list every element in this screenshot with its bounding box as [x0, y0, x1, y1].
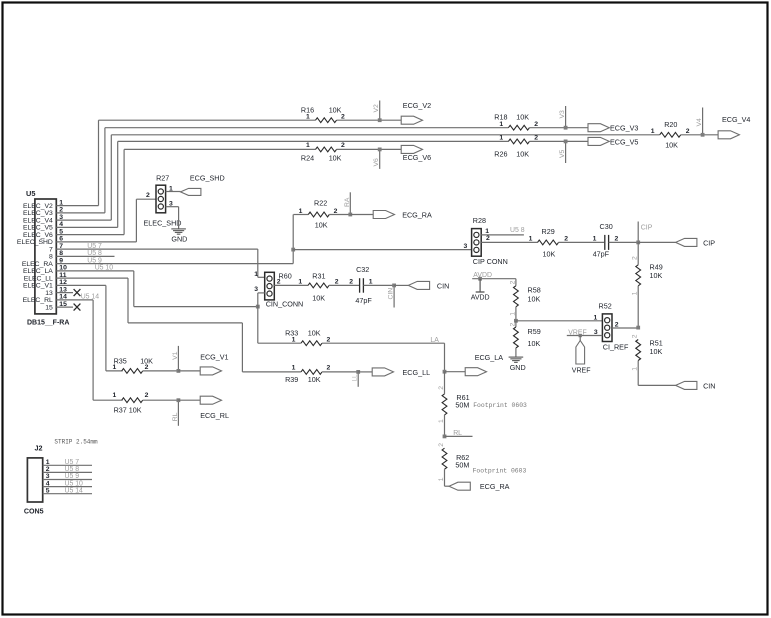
svg-text:R37 10K: R37 10K [114, 405, 142, 414]
capacitor C32 47pF [349, 265, 394, 305]
wire U5 pin 10 to CIN_CONN pin 3 riser [73, 271, 258, 307]
svg-text:5: 5 [59, 228, 63, 235]
svg-text:ELEC_SHD: ELEC_SHD [17, 239, 53, 246]
svg-text:10K: 10K [528, 339, 541, 348]
svg-text:2: 2 [615, 235, 619, 242]
net label V3 [559, 110, 566, 119]
net label VREF grey [568, 330, 586, 338]
svg-text:2: 2 [438, 443, 445, 447]
svg-text:1: 1 [438, 419, 445, 423]
capacitor C30 47pF [593, 222, 639, 258]
svg-text:3: 3 [46, 473, 50, 480]
svg-text:R59: R59 [528, 327, 541, 336]
svg-text:CIP: CIP [641, 224, 653, 231]
input flag CIN [676, 381, 716, 390]
svg-text:ECG_RA: ECG_RA [480, 482, 510, 491]
svg-text:CIN: CIN [388, 288, 395, 300]
svg-text:1: 1 [485, 228, 489, 235]
svg-text:V6: V6 [373, 158, 380, 167]
resistor R49 10K [632, 242, 663, 327]
svg-text:ELEC_V2: ELEC_V2 [23, 203, 53, 210]
svg-text:1: 1 [509, 312, 516, 316]
svg-text:CON5: CON5 [24, 507, 44, 515]
svg-text:V3: V3 [559, 110, 566, 119]
svg-text:ELEC_LL: ELEC_LL [24, 275, 53, 282]
svg-text:2: 2 [341, 114, 345, 121]
svg-text:15: 15 [45, 304, 53, 311]
svg-text:1: 1 [529, 235, 533, 242]
svg-text:AVDD: AVDD [473, 272, 492, 279]
svg-text:9: 9 [59, 257, 63, 264]
svg-text:3: 3 [594, 329, 598, 336]
flag ECG_SHD [181, 174, 225, 196]
svg-text:1: 1 [593, 235, 597, 242]
svg-text:U5 8: U5 8 [65, 466, 80, 473]
svg-text:ELEC_RL: ELEC_RL [23, 297, 53, 304]
output flag ECG_V5 [588, 137, 638, 146]
svg-text:2: 2 [632, 334, 639, 338]
wire U5 pin 6 ELEC_SHD to R27 pin 2 [73, 199, 156, 242]
svg-text:ELEC_V1: ELEC_V1 [23, 283, 53, 290]
resistor R58 10K [509, 279, 540, 321]
wire R27 pin 3 to ground [166, 200, 179, 228]
svg-text:2: 2 [341, 142, 345, 149]
svg-text:13: 13 [59, 286, 67, 293]
wire R27 pin 1 to ECG_SHD flag [166, 185, 181, 192]
svg-text:1: 1 [369, 278, 373, 285]
svg-text:3: 3 [254, 286, 258, 293]
header R27 [156, 174, 169, 213]
svg-text:1: 1 [292, 364, 296, 371]
svg-text:CIN: CIN [703, 381, 715, 390]
net label RL grey mid [453, 430, 462, 437]
net label U5 10 [95, 265, 114, 272]
svg-text:10K: 10K [315, 221, 328, 230]
label footprint R61 [473, 402, 527, 409]
svg-text:C30: C30 [600, 222, 613, 231]
svg-text:3: 3 [169, 200, 173, 207]
svg-text:ELEC_V6: ELEC_V6 [23, 232, 53, 239]
svg-text:50M: 50M [455, 461, 469, 470]
wire R60 pin 3 [254, 286, 264, 343]
svg-text:10K: 10K [516, 149, 529, 158]
net label AVDD grey [473, 272, 492, 279]
node RL junction [443, 435, 473, 439]
no-connect X pin 15 [74, 304, 81, 311]
power flag VREF [572, 336, 591, 375]
resistor R39 10K [285, 364, 358, 384]
svg-text:2: 2 [145, 392, 149, 399]
resistor R22 10K [293, 199, 350, 230]
svg-text:LL: LL [352, 374, 359, 382]
net label RA [344, 197, 351, 207]
svg-text:2: 2 [534, 135, 538, 142]
svg-text:U5 10: U5 10 [95, 265, 114, 272]
svg-text:ECG_V5: ECG_V5 [610, 137, 638, 146]
svg-text:ECG_RL: ECG_RL [200, 411, 229, 420]
wire U5 pin 3 to rail ECG_V4 [73, 135, 718, 220]
input flag CIN mid [408, 281, 449, 290]
svg-text:8: 8 [59, 250, 63, 257]
header R60 CIN_CONN [265, 271, 304, 308]
svg-text:2: 2 [334, 208, 338, 215]
svg-text:10K: 10K [650, 347, 663, 356]
connector J2 CON5 [24, 443, 92, 515]
wire U5 pin 8 stub [73, 255, 115, 257]
node V5 [564, 140, 568, 164]
svg-text:ELEC_SHD: ELEC_SHD [144, 218, 182, 227]
output flag ECG_RA [373, 210, 432, 219]
svg-text:10K: 10K [312, 293, 325, 302]
svg-text:1: 1 [438, 477, 445, 481]
node CIP stub [636, 222, 675, 245]
svg-text:8: 8 [49, 254, 53, 261]
svg-text:R39: R39 [285, 375, 298, 384]
svg-text:RA: RA [344, 197, 351, 207]
svg-text:V1: V1 [172, 351, 179, 360]
svg-text:2: 2 [335, 278, 339, 285]
svg-text:STRIP 2.54mm: STRIP 2.54mm [54, 439, 98, 446]
svg-text:2: 2 [509, 280, 516, 284]
svg-text:1: 1 [169, 185, 173, 192]
svg-text:4: 4 [59, 221, 63, 228]
svg-text:10: 10 [59, 265, 67, 272]
output flag ECG_RL [200, 396, 229, 420]
svg-text:U5 9: U5 9 [87, 257, 102, 264]
svg-text:1: 1 [59, 199, 63, 206]
wire R52 pin 3 to VREF [567, 329, 603, 336]
svg-text:R20: R20 [664, 120, 677, 129]
svg-text:6: 6 [59, 236, 63, 243]
svg-text:3: 3 [464, 243, 468, 250]
svg-text:10K: 10K [308, 329, 321, 338]
input flag ECG_RA bottom [445, 482, 510, 491]
svg-text:2: 2 [615, 321, 619, 328]
wire R60 pin 2 to R31 [274, 279, 308, 286]
svg-text:10K: 10K [650, 271, 663, 280]
svg-text:V4: V4 [696, 118, 703, 127]
svg-text:1: 1 [254, 271, 258, 278]
node V6 [378, 148, 382, 169]
net label LA grey [430, 337, 439, 344]
svg-text:R52: R52 [599, 302, 612, 311]
resistor R35 10K [113, 357, 179, 374]
header R28 CIP CONN [472, 216, 508, 266]
net label V6 [373, 158, 380, 167]
svg-text:2: 2 [146, 192, 150, 199]
svg-text:2: 2 [632, 256, 639, 260]
net label U5 8 [87, 250, 102, 257]
svg-text:U5 14: U5 14 [81, 294, 100, 301]
node CIN stub [392, 284, 408, 308]
svg-text:2: 2 [564, 235, 568, 242]
output flag ECG_V4 [718, 115, 750, 139]
junction node A [291, 248, 295, 252]
wire U5 pin 2 to rail ECG_V3 [73, 128, 588, 213]
wire R28 pin 2 to R29 [481, 235, 537, 242]
svg-text:10K: 10K [528, 294, 541, 303]
svg-text:ELEC_LA: ELEC_LA [23, 268, 53, 275]
wire U5 pin 7 to CIN_CONN pin 1 [73, 249, 265, 277]
svg-text:R28: R28 [473, 216, 486, 225]
wire U5 pin 11 to R39 [73, 278, 301, 372]
svg-text:U5 7: U5 7 [65, 459, 80, 466]
wire U5 pin 1 to rail ECG_V2 [73, 120, 401, 205]
svg-text:2: 2 [327, 336, 331, 343]
svg-text:1: 1 [113, 392, 117, 399]
node V1 stub [177, 346, 201, 373]
svg-text:4: 4 [46, 480, 50, 487]
svg-text:47pF: 47pF [355, 296, 372, 305]
svg-text:ELEC_V4: ELEC_V4 [23, 217, 53, 224]
wire to CIN flag [638, 384, 675, 386]
wire node A to CIP_CONN pin 3 [293, 249, 471, 251]
net label CIN grey [388, 288, 395, 300]
svg-text:1: 1 [113, 364, 117, 371]
svg-text:ECG_V4: ECG_V4 [722, 115, 750, 124]
svg-text:V5: V5 [559, 149, 566, 158]
svg-text:3: 3 [59, 214, 63, 221]
wire R28 pin 1 net U5 8 [481, 228, 524, 235]
svg-text:13: 13 [45, 290, 53, 297]
wire R27 pin 2 [146, 192, 150, 199]
svg-text:50M: 50M [455, 401, 469, 410]
net label U5 8 at R28 [510, 227, 525, 234]
svg-text:RL: RL [172, 412, 179, 421]
svg-text:R31: R31 [312, 271, 325, 280]
svg-text:CIP CONN: CIP CONN [473, 257, 508, 266]
resistor R31 10K [298, 271, 359, 302]
svg-text:R26: R26 [494, 149, 507, 158]
svg-text:ELEC_V5: ELEC_V5 [23, 225, 53, 232]
svg-text:2: 2 [486, 235, 490, 242]
svg-text:1: 1 [632, 367, 639, 371]
svg-text:U5: U5 [26, 189, 35, 198]
svg-text:DB15__F-RA: DB15__F-RA [27, 319, 69, 326]
svg-text:LA: LA [430, 337, 439, 344]
wire AVDD rail [472, 277, 516, 281]
junction on CIN_CONN pin 3 riser [256, 305, 260, 309]
svg-text:ECG_V2: ECG_V2 [403, 101, 431, 110]
svg-text:C32: C32 [356, 265, 369, 274]
node V3 [564, 106, 568, 130]
net label V1 grey [172, 351, 179, 360]
wire U5 pin 9 to node A [73, 215, 293, 264]
svg-text:47pF: 47pF [593, 249, 610, 258]
resistor R18 10K [494, 113, 538, 131]
wire R52 pin 2 to divider node [612, 321, 638, 328]
resistor R61 50M [438, 372, 470, 437]
wire U5 pin 14 to R37 [73, 300, 123, 400]
label R60 pin 1 [254, 271, 258, 278]
svg-text:2: 2 [534, 121, 538, 128]
resistor R16 10K [301, 106, 345, 123]
power symbol AVDD [471, 279, 490, 302]
svg-text:J2: J2 [35, 443, 43, 452]
svg-text:ECG_LA: ECG_LA [475, 353, 504, 362]
svg-text:1: 1 [292, 336, 296, 343]
svg-text:1: 1 [306, 142, 310, 149]
svg-text:U5 8: U5 8 [87, 250, 102, 257]
svg-text:10K: 10K [543, 249, 556, 258]
svg-text:R24: R24 [301, 154, 314, 163]
ground GND at R27 [171, 229, 187, 244]
svg-text:1: 1 [298, 278, 302, 285]
wire LA down [443, 343, 447, 373]
svg-text:1: 1 [46, 459, 50, 466]
output flag ECG_LL [372, 368, 430, 377]
wire U5 pin 4 to rail ECG_V5 [73, 141, 588, 227]
net label CIP grey [641, 224, 653, 231]
output flag ECG_V2 [401, 101, 431, 124]
svg-text:AVDD: AVDD [471, 294, 490, 301]
svg-text:VREF: VREF [572, 367, 591, 374]
net label V5 [559, 149, 566, 158]
svg-text:RL: RL [453, 430, 462, 437]
svg-text:Footprint 0603: Footprint 0603 [473, 467, 527, 474]
svg-text:1: 1 [632, 291, 639, 295]
header R52 CI_REF [599, 302, 629, 352]
svg-text:GND: GND [171, 235, 187, 244]
svg-text:R22: R22 [314, 199, 327, 208]
svg-text:2: 2 [438, 386, 445, 390]
net label ELEC_SHD [144, 218, 182, 227]
resistor R29 10K [529, 227, 604, 259]
resistor R37 10K [113, 392, 179, 414]
svg-text:10K: 10K [329, 106, 342, 115]
svg-text:7: 7 [49, 246, 53, 253]
svg-text:Footprint 0603: Footprint 0603 [473, 402, 527, 409]
svg-text:VREF: VREF [568, 330, 586, 337]
svg-text:ECG_LL: ECG_LL [403, 368, 431, 377]
svg-text:7: 7 [59, 243, 63, 250]
node V2 [378, 101, 382, 123]
svg-text:R27: R27 [156, 174, 169, 183]
svg-text:2: 2 [277, 279, 281, 286]
svg-text:ECG_V1: ECG_V1 [200, 352, 228, 361]
node RL stub [177, 398, 201, 426]
svg-text:12: 12 [59, 279, 67, 286]
svg-text:5: 5 [46, 487, 50, 494]
wire rail5 R24 [301, 142, 345, 163]
svg-text:2: 2 [46, 466, 50, 473]
junction R58 R59 [514, 319, 602, 323]
resistor R51 10K [632, 334, 663, 385]
label footprint R62 [473, 467, 527, 474]
label STRIP 2.54mm [54, 439, 98, 446]
svg-text:10K: 10K [516, 113, 529, 122]
junction divider CI_REF [636, 326, 640, 330]
wire U5 pin 5 to rail ECG_V6 [73, 149, 401, 234]
svg-text:CIP: CIP [703, 238, 715, 247]
net label V4 [696, 118, 703, 127]
net label U5 9 [87, 257, 102, 264]
svg-text:CIN_CONN: CIN_CONN [266, 300, 304, 309]
svg-text:R29: R29 [542, 227, 555, 236]
svg-text:1: 1 [499, 135, 503, 142]
svg-text:1: 1 [651, 128, 655, 135]
svg-text:2: 2 [509, 323, 516, 327]
svg-text:14: 14 [59, 294, 67, 301]
node LL stub [356, 370, 372, 387]
resistor R26 10K [494, 135, 538, 159]
svg-text:CI_REF: CI_REF [603, 342, 629, 351]
net label LL grey [352, 374, 359, 382]
svg-text:10K: 10K [308, 375, 321, 384]
net label V2 [373, 104, 380, 113]
svg-text:1: 1 [306, 114, 310, 121]
svg-text:2: 2 [349, 278, 353, 285]
svg-text:ECG_RA: ECG_RA [402, 210, 432, 219]
net label RL grey [172, 412, 179, 421]
connector U5 DB15__F-RA [17, 189, 73, 326]
node V4 [701, 108, 705, 137]
svg-text:U5 14: U5 14 [65, 487, 84, 494]
net label U5 7 [87, 243, 102, 250]
svg-text:U5 9: U5 9 [65, 473, 80, 480]
svg-text:10K: 10K [329, 154, 342, 163]
node RA [348, 192, 373, 216]
label R52 pin 1 [594, 314, 598, 321]
resistor R20 10K [651, 120, 690, 149]
svg-text:ELEC_RA: ELEC_RA [22, 261, 53, 268]
ground GND at R59 [509, 357, 526, 372]
svg-text:1: 1 [499, 121, 503, 128]
svg-text:ECG_SHD: ECG_SHD [190, 174, 225, 183]
svg-text:11: 11 [59, 272, 66, 279]
wire U5 pin 12 to R35 [73, 285, 123, 371]
svg-text:U5 8: U5 8 [510, 227, 525, 234]
svg-text:R58: R58 [528, 286, 541, 295]
output flag ECG_V3 [588, 124, 638, 133]
svg-text:2: 2 [327, 364, 331, 371]
svg-text:GND: GND [510, 363, 526, 372]
svg-text:2: 2 [145, 364, 149, 371]
no-connect X pin 13 [74, 289, 81, 296]
svg-text:10K: 10K [665, 141, 678, 150]
svg-text:2: 2 [686, 128, 690, 135]
resistor R33 10K [258, 329, 445, 346]
svg-text:ELEC_V3: ELEC_V3 [23, 210, 53, 217]
label R28 pin 3 [464, 243, 468, 250]
svg-text:ECG_V3: ECG_V3 [610, 124, 638, 133]
svg-text:V2: V2 [373, 104, 380, 113]
resistor R59 10K [509, 321, 540, 357]
resistor R62 50M [438, 443, 469, 487]
svg-text:U5 7: U5 7 [87, 243, 102, 250]
output flag ECG_V1 [200, 352, 228, 375]
svg-text:15: 15 [59, 301, 67, 308]
svg-text:ECG_V6: ECG_V6 [403, 153, 431, 162]
output flag ECG_V6 [401, 145, 431, 161]
svg-text:U5 10: U5 10 [65, 480, 84, 487]
svg-text:2: 2 [59, 207, 63, 214]
output flag ECG_LA [445, 353, 504, 376]
svg-text:1: 1 [299, 208, 303, 215]
input flag CIP [676, 238, 716, 247]
svg-text:1: 1 [594, 314, 598, 321]
net label U5 14 [81, 294, 100, 301]
svg-text:CIN: CIN [437, 281, 449, 290]
